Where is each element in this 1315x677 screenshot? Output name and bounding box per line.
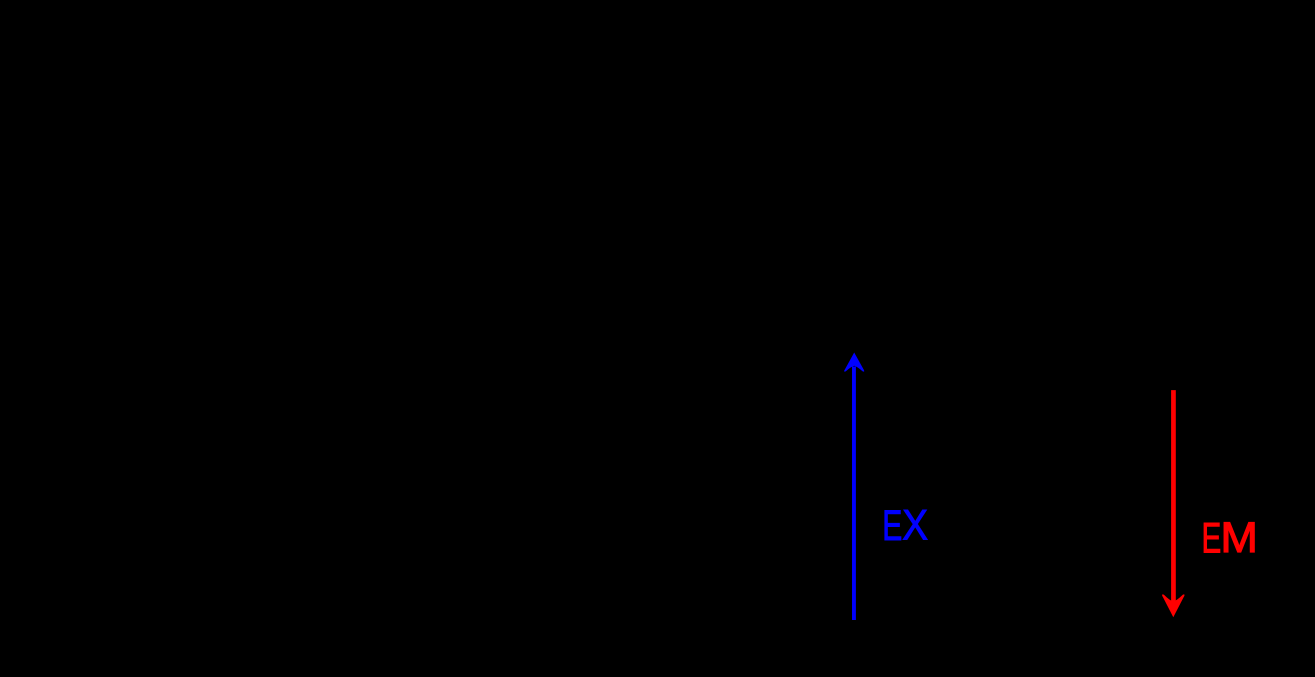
- svg-text:E: E: [882, 502, 902, 549]
- svg-text:E: E: [1202, 514, 1222, 562]
- svg-text:X: X: [902, 501, 928, 549]
- svg-text:M: M: [1221, 514, 1258, 562]
- label EM: [1202, 514, 1258, 562]
- wire: blue shaft: [852, 367, 856, 621]
- excitation arrow EX (blue, upward): [844, 353, 864, 621]
- wire: red shaft: [1171, 390, 1176, 601]
- red arrowhead: [1162, 594, 1184, 617]
- emission arrow EM (red, downward): [1162, 390, 1184, 617]
- blue arrowhead: [844, 353, 864, 372]
- label EX: [882, 501, 928, 549]
